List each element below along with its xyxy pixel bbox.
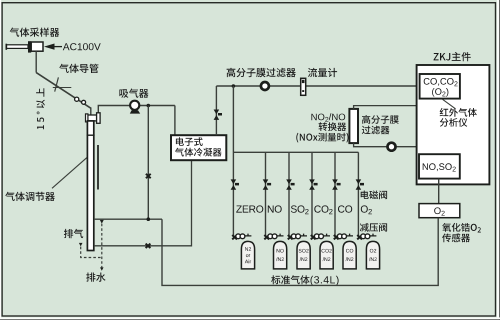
wire: CO gas line [334,152,336,236]
x-valve on bypass line [146,174,151,178]
regulator inlet valve CO/N2 [334,235,339,239]
label: aspirator 吸气器 [119,89,148,98]
label CO [338,205,352,212]
wire: manifold [233,151,358,153]
junction dot on aspirator line [147,104,151,108]
drain arrow tip [100,267,104,270]
label CO,CO2 [424,78,458,86]
gas sampler flange [28,41,31,52]
gas cylinder O2/N2 [366,241,379,269]
cylinder label N2/Air Air [245,259,251,263]
label NO2/NO [311,113,345,122]
angle mark horizontal [53,87,72,89]
tube top fitting right flange [97,113,101,124]
label: solenoid valve 电磁阀 [361,191,387,200]
gas cylinder N2/Air [241,241,254,269]
cylinder label CO/N2 CO [346,249,353,253]
label: zirconia O2 氧化锆O2 [442,223,481,233]
regulator inlet valve CO2/N2 [311,235,316,239]
regulator gauges SO2/N2 [291,234,296,239]
cylinder label SO2/N2 /N2 [300,257,308,261]
valve NO [263,179,269,189]
label: exhaust 排气 [64,229,83,238]
valve SO2 [286,179,292,189]
label O2 [361,205,372,214]
valve ZERO [231,179,237,189]
wire: CO2 gas line [311,152,313,236]
regulator gauges N2/Air [236,234,241,239]
label: infrared gas 红外气体 [440,108,477,117]
drain arrowhead under line B [100,220,104,224]
label: gas sampler 气体采样器 [10,28,60,37]
conditioner tube body [87,121,93,251]
membrane filter 1 [261,82,269,90]
regulator gauges CO/N2 [337,234,342,239]
wire: NO gas line [265,152,267,236]
cylinder label CO/N2 /N2 [346,257,354,261]
CO,CO2 (O2) analyzer box [420,74,460,99]
wire: O2 sensor return line [162,218,438,286]
wire: tube to manifold B [94,218,162,220]
cylinder label N2/Air or [246,254,250,257]
wire: sampler down [35,51,37,72]
x-valve on condenser drain [146,244,151,248]
wire: NO,SO2 to O2 sensor [438,179,440,204]
wire: SO2 gas line [288,152,290,236]
NO,SO2 analyzer box [419,154,460,178]
pointer line to regulator tube [52,158,87,189]
cylinder label SO2/N2 SO2 [299,249,309,253]
O2 sensor box [419,204,460,218]
wire: drop to condenser inlet [174,106,176,136]
exhaust arrowhead [79,243,83,247]
cylinder label NO/N2 /N2 [276,257,284,261]
label SO2 [291,205,309,214]
conduit union ring 2 [82,100,86,104]
AC100V arrow [44,44,55,50]
gas cylinder NO/N2 [274,241,287,269]
label: polymer membrane filter 高分子膜过滤器 [227,68,296,77]
cylinder label N2/Air N2 [245,247,251,251]
gas sampler body box [31,42,43,51]
dashed drain line down [101,224,103,269]
tube top fitting body [88,115,97,121]
label: converter 转换器 [319,122,347,131]
label: standard gas 标准气体 [271,275,309,284]
label CO2 [314,205,332,214]
label NO [268,205,282,212]
membrane filter 2 [388,143,396,151]
valve CO2 [309,179,315,189]
label: sensor 传感器 [442,233,470,242]
cylinder label O2/N2 O2 [370,249,376,253]
tube joint band [87,134,95,136]
tube top fitting left flange [86,114,88,122]
cylinder label NO/N2 NO [277,249,284,253]
wire: converter top to CO/CO2 analyzer [354,99,439,109]
wire: condenser drain [94,160,192,246]
gas cylinder CO/N2 [343,241,356,269]
label: 过滤器 [362,126,390,135]
gas sampler probe [7,45,29,49]
label: ZKJ main unit ZKJ主件 [434,52,471,61]
regulator inlet valve N2/Air [232,235,237,239]
wire: converter bottom to NO/SO2 analyzer [354,143,439,154]
flow meter body [301,78,306,95]
electronic gas condenser box [171,135,226,160]
valve O2 solenoid [356,179,362,189]
aspirator pump circle [130,101,139,110]
regulator gauges NO/N2 [268,234,273,239]
gas cylinder SO2/N2 [297,241,310,269]
label O2 box [434,207,445,215]
label NO,SO2 [423,163,456,171]
label: 高分子膜 [362,115,399,124]
pointer to infrared analyzer label [443,99,456,109]
label: 15 deg or more (rotated) [36,88,45,129]
regulator inlet valve O2/N2 [357,235,362,239]
label: flow meter 流量计 [308,68,337,77]
tube side line [97,145,99,190]
wire: condenser outlet up [215,86,217,135]
label: (NOx measurement) (NOx测量时) [296,133,348,143]
wire: ZERO gas line [232,86,234,237]
cylinder label CO2/N2 CO2 [322,249,332,253]
dashed exhaust path [81,247,102,258]
label ZERO [236,205,263,212]
label: analyzer 分析仪 [440,118,468,127]
wire: gas conduit diagonal [36,73,91,109]
NO2/NO converter body [349,109,358,143]
wire: main sample line [216,85,417,87]
conduit union ring 1 [75,97,79,101]
junction dot zero line [232,84,236,88]
label: gas conduit 气体导管 [59,64,98,73]
needle valve above condenser [214,110,220,120]
junction dot on line B [147,217,151,221]
label: AC100V [63,43,101,50]
label: drain 排水 [86,273,105,282]
cylinder label O2/N2 /N2 [369,257,377,261]
label: (3.4L) [311,276,339,286]
valve CO [332,179,338,189]
label: 电子式 [176,137,203,146]
regulator inlet valve NO/N2 [264,235,269,239]
regulator inlet valve SO2/N2 [288,235,293,239]
wire: diagonal stub into fitting [90,107,92,115]
wire: O2 gas line [357,152,359,236]
angle mark tick [55,77,59,91]
label (O2) [432,88,448,97]
wire: aspirator suction line [98,106,175,113]
wire: bypass drop line [147,106,149,220]
aspirator pump base [130,110,140,113]
cylinder label CO2/N2 /N2 [323,257,331,261]
label: gas regulator 气体调节器 [5,192,55,201]
ZKJ main unit box [417,65,490,184]
gas cylinder CO2/N2 [320,241,333,269]
label: 气体冷凝器 [175,148,222,157]
regulator gauges O2/N2 [361,234,366,239]
regulator gauges CO2/N2 [314,234,319,239]
label: pressure reducing valve 减压阀 [360,223,387,232]
